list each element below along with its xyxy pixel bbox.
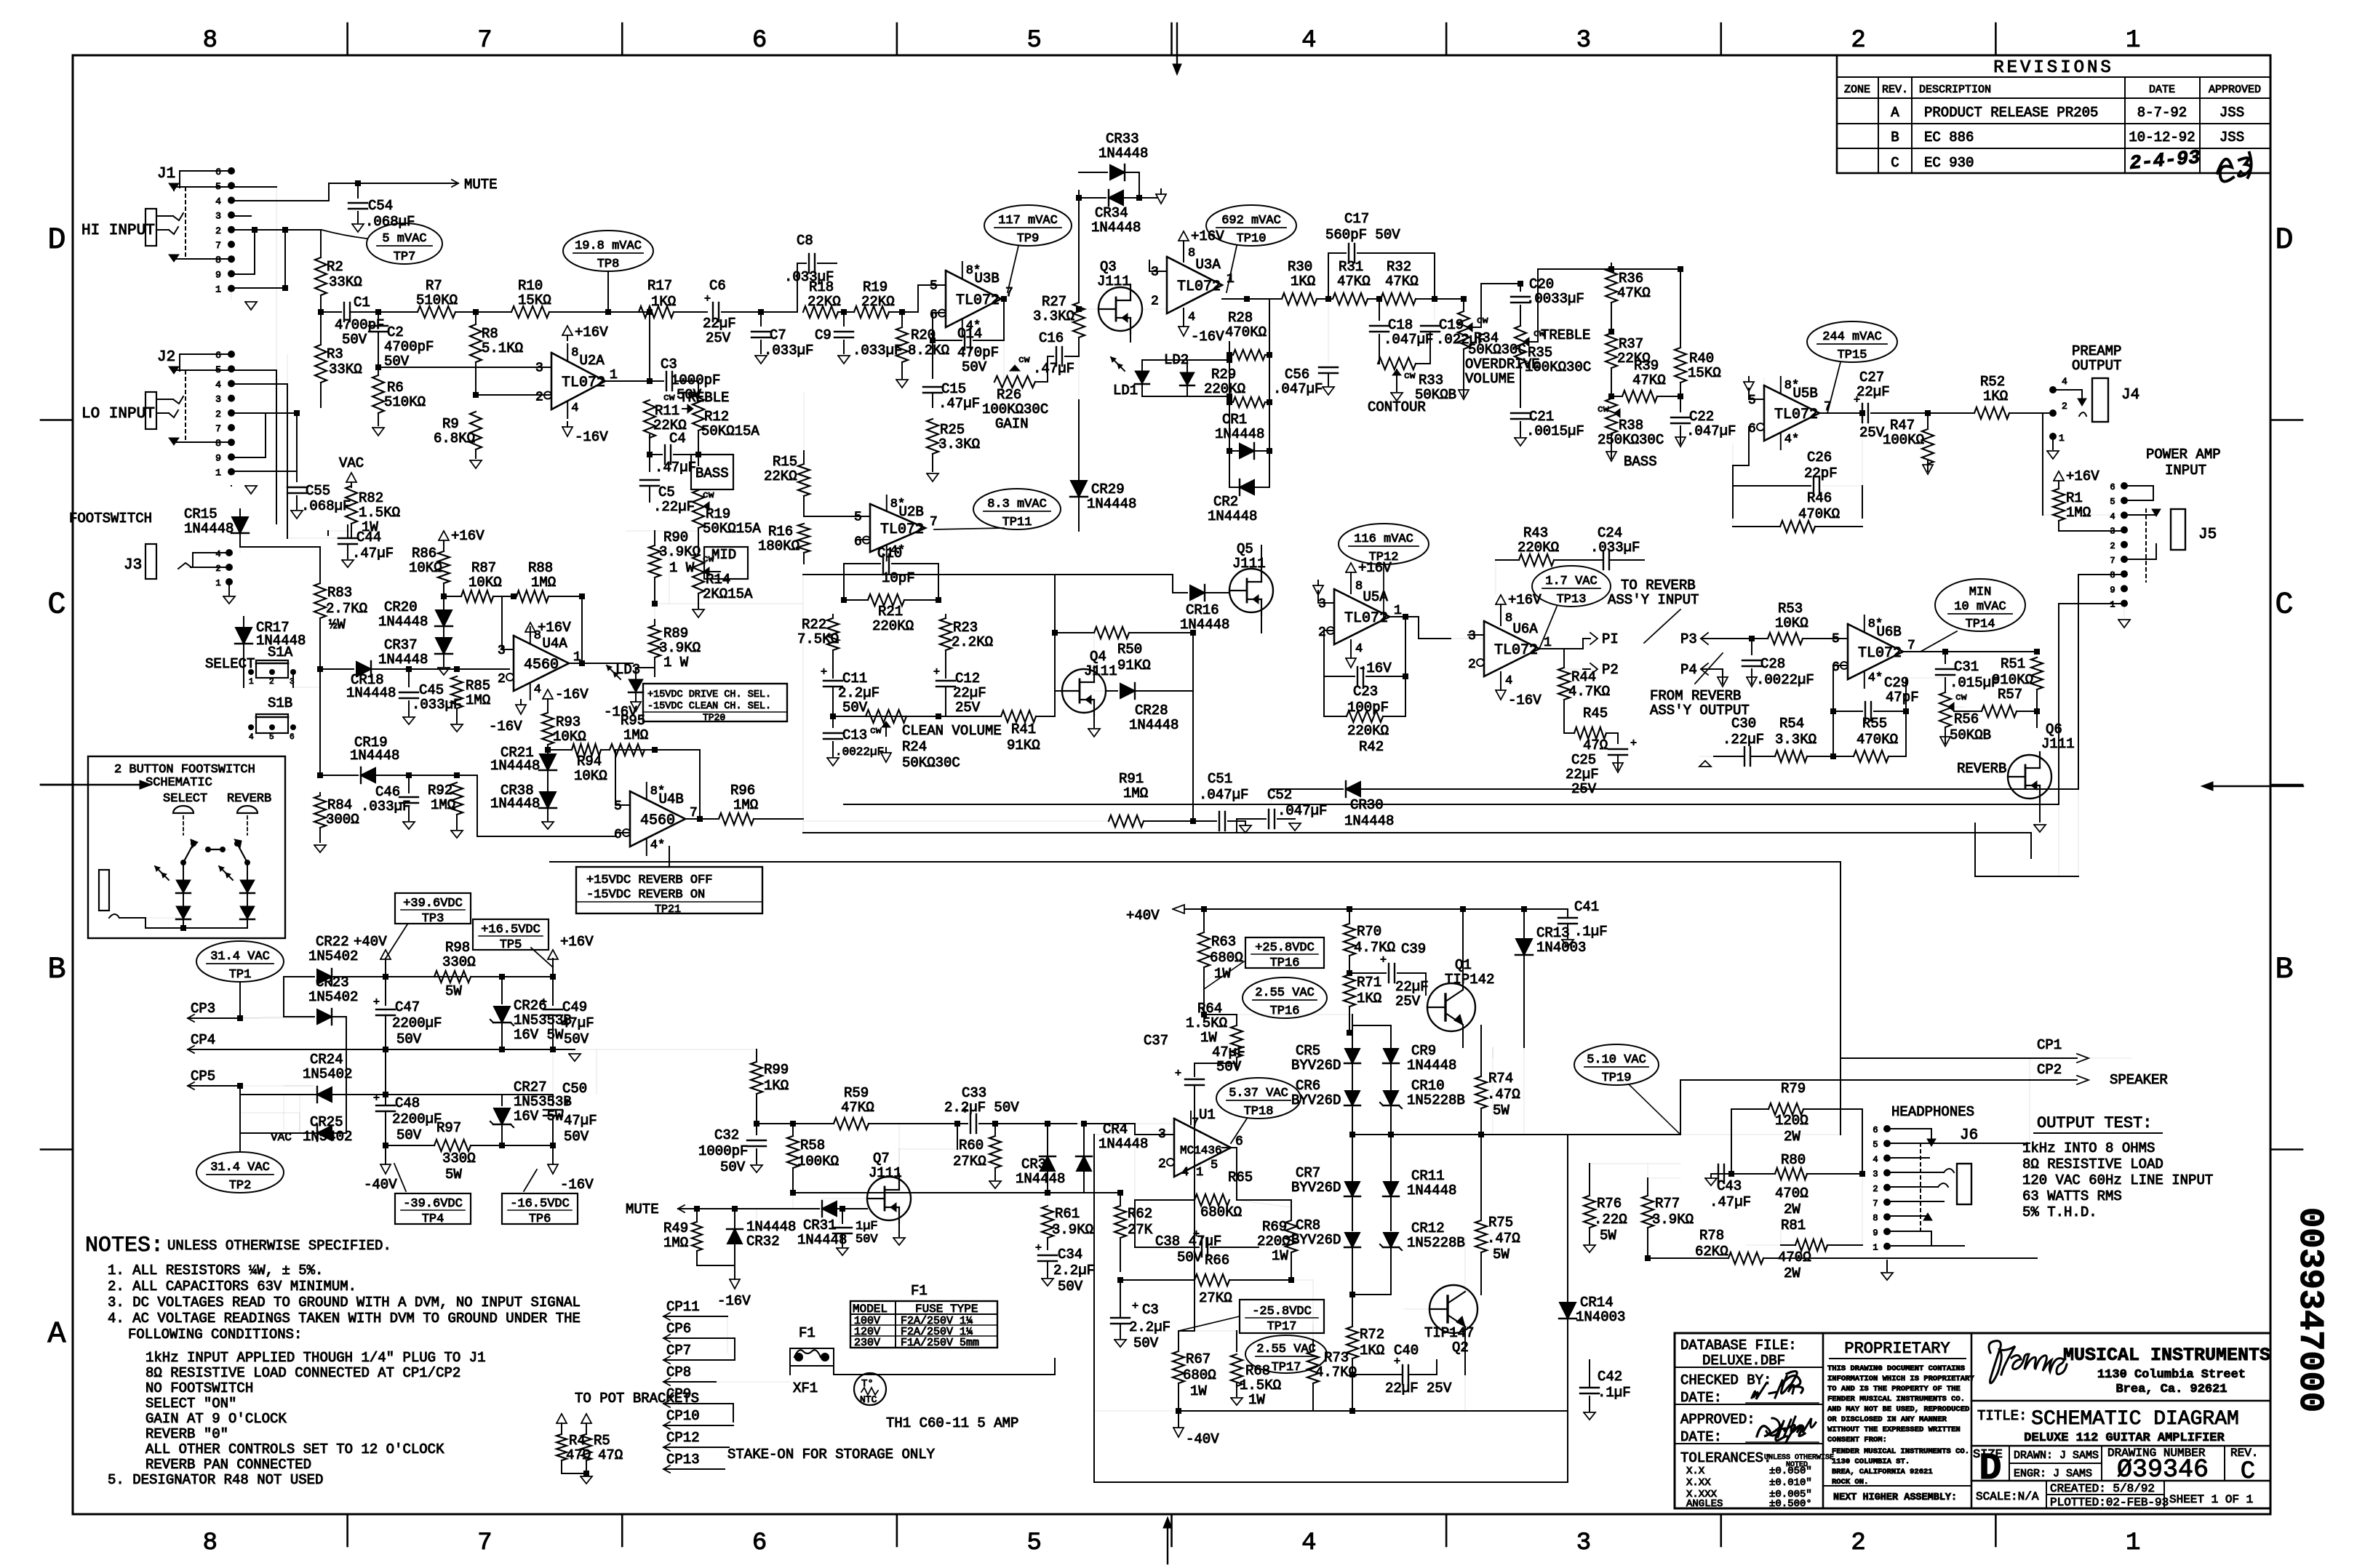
svg-text:R75: R75 <box>1488 1215 1513 1231</box>
svg-text:5 mVAC: 5 mVAC <box>382 232 426 246</box>
svg-text:100KΩ: 100KΩ <box>797 1153 839 1169</box>
svg-text:DATE:: DATE: <box>1680 1390 1722 1406</box>
svg-text:8*: 8* <box>1784 379 1799 393</box>
svg-text:50V: 50V <box>1133 1335 1159 1351</box>
resistor R89 <box>632 663 634 664</box>
handwritten checked signature <box>1781 1371 1803 1393</box>
svg-text:1kHz INPUT APPLIED THOUGH 1/4": 1kHz INPUT APPLIED THOUGH 1/4" PLUG TO J… <box>145 1350 485 1366</box>
svg-text:.0033µF: .0033µF <box>1526 291 1584 307</box>
box MID label <box>704 547 748 579</box>
svg-text:300Ω: 300Ω <box>326 812 359 828</box>
svg-text:CP7: CP7 <box>666 1343 691 1359</box>
connector CP11 <box>663 1313 670 1320</box>
testpoint TP15 <box>1807 321 1897 362</box>
svg-text:62KΩ: 62KΩ <box>1695 1244 1728 1260</box>
svg-text:+16V: +16V <box>575 324 608 340</box>
svg-text:R17: R17 <box>647 278 672 294</box>
svg-text:TIP147: TIP147 <box>1424 1325 1474 1341</box>
ground C55 <box>291 511 303 519</box>
svg-text:+25.8VDC: +25.8VDC <box>1255 941 1315 955</box>
svg-text:C51: C51 <box>1208 771 1232 787</box>
svg-text:C9: C9 <box>815 327 831 343</box>
svg-text:-16V: -16V <box>560 1177 594 1193</box>
resistor R17 <box>608 311 637 313</box>
op-amp U5B <box>1764 385 1819 441</box>
svg-text:MID: MID <box>711 547 736 563</box>
svg-text:FUSE TYPE: FUSE TYPE <box>915 1303 978 1316</box>
svg-text:CR34: CR34 <box>1095 205 1128 221</box>
svg-text:CR15: CR15 <box>184 506 218 522</box>
svg-text:CP8: CP8 <box>666 1364 691 1380</box>
svg-text:cw: cw <box>1404 370 1416 381</box>
resistor R95 <box>610 744 645 756</box>
svg-text:TL072: TL072 <box>956 292 1000 309</box>
svg-text:C22: C22 <box>1689 409 1714 425</box>
resistor R57 <box>1954 706 1964 708</box>
svg-text:1KΩ: 1KΩ <box>1983 388 2008 404</box>
capacitor C21 <box>1511 412 1530 414</box>
svg-text:2.55 VAC: 2.55 VAC <box>1256 1343 1316 1356</box>
resistor R83 <box>319 575 321 582</box>
testpoint TP1 <box>196 941 284 982</box>
ground R6 <box>372 428 384 436</box>
svg-text:2: 2 <box>1851 1529 1865 1557</box>
svg-text:10KΩ: 10KΩ <box>409 560 442 576</box>
svg-text:2: 2 <box>215 564 220 574</box>
svg-text:REVERB PAN CONNECTED: REVERB PAN CONNECTED <box>145 1457 311 1473</box>
arrow C43 left <box>1705 1178 1717 1185</box>
title block frame <box>1675 1333 2270 1508</box>
svg-text:C8: C8 <box>797 233 813 249</box>
svg-text:1N4448: 1N4448 <box>350 748 399 764</box>
svg-text:C37: C37 <box>1144 1033 1168 1049</box>
resistor R59 <box>793 1123 832 1124</box>
rail CP4 junctions <box>383 1047 388 1052</box>
arrow P1 <box>1564 648 1583 649</box>
svg-text:Q4: Q4 <box>1090 649 1106 665</box>
svg-text:8Ω RESISTIVE LOAD: 8Ω RESISTIVE LOAD <box>2022 1156 2163 1172</box>
svg-text:8*: 8* <box>650 785 665 799</box>
svg-text:SHEET 1 OF 1: SHEET 1 OF 1 <box>2169 1493 2253 1506</box>
svg-text:1: 1 <box>2059 433 2065 444</box>
capacitor C16 <box>1047 356 1048 382</box>
svg-text:22µF: 22µF <box>703 316 736 332</box>
svg-text:1: 1 <box>249 678 254 687</box>
resistor R51 <box>1945 651 2037 652</box>
next higher assembly divider <box>1823 1485 1971 1487</box>
svg-text:LD3: LD3 <box>615 662 640 678</box>
svg-text:2.2µF: 2.2µF <box>838 685 880 701</box>
svg-text:3: 3 <box>215 211 221 222</box>
power VAC arrow <box>346 473 356 482</box>
svg-text:GAIN: GAIN <box>995 416 1029 432</box>
resistor R96 <box>719 813 754 825</box>
svg-text:TITLE:: TITLE: <box>1977 1408 2027 1424</box>
svg-text:120 VAC 60Hz LINE INPUT: 120 VAC 60Hz LINE INPUT <box>2022 1172 2213 1188</box>
svg-text:EC 886: EC 886 <box>1924 129 1974 145</box>
svg-text:1N4448: 1N4448 <box>797 1232 847 1248</box>
svg-text:cw: cw <box>1955 692 1967 703</box>
svg-text:.22µF: .22µF <box>1723 732 1764 748</box>
svg-text:5: 5 <box>1026 1529 1041 1557</box>
op-amp U4B <box>630 791 685 847</box>
potentiometer R24 clean volume <box>833 716 938 717</box>
svg-text:470KΩ: 470KΩ <box>1857 732 1898 748</box>
svg-text:+16V: +16V <box>451 528 484 544</box>
resistor R28 body <box>1233 350 1265 360</box>
svg-text:U4A: U4A <box>543 636 568 652</box>
svg-text:6: 6 <box>215 167 221 177</box>
svg-text:2: 2 <box>1318 625 1326 640</box>
svg-text:8: 8 <box>571 346 578 360</box>
transistor Q6 <box>2008 755 2051 799</box>
svg-text:CP2: CP2 <box>2037 1062 2062 1078</box>
resistor R84 <box>314 796 326 828</box>
svg-text:2: 2 <box>215 409 221 420</box>
resistor R21 <box>868 594 904 606</box>
wire Q2 collector <box>1464 1327 1466 1375</box>
power -16V LD3 <box>631 702 641 711</box>
svg-text:3: 3 <box>535 361 543 376</box>
resistor R70 <box>1349 909 1350 922</box>
resistor R67 <box>1178 1331 1179 1350</box>
svg-text:7.5KΩ: 7.5KΩ <box>797 631 839 647</box>
svg-text:R77: R77 <box>1655 1196 1680 1212</box>
svg-text:R5: R5 <box>594 1433 610 1449</box>
svg-text:10KΩ: 10KΩ <box>1775 615 1808 631</box>
resistor R49 <box>756 1209 757 1219</box>
svg-text:100KΩ30C: 100KΩ30C <box>982 401 1048 417</box>
capacitor C45 <box>408 669 410 687</box>
svg-text:330Ω: 330Ω <box>442 1151 476 1167</box>
svg-text:1N4448: 1N4448 <box>1087 496 1136 512</box>
svg-text:CR1: CR1 <box>1222 412 1247 428</box>
svg-text:7: 7 <box>477 27 492 55</box>
svg-text:FENDER MUSICAL INSTRUMENTS CO.: FENDER MUSICAL INSTRUMENTS CO. <box>1832 1447 1969 1456</box>
svg-text:WITHOUT THE EXPRESSED WRITTEN: WITHOUT THE EXPRESSED WRITTEN <box>1827 1425 1961 1434</box>
svg-text:R38: R38 <box>1619 417 1643 433</box>
svg-text:C24: C24 <box>1598 525 1622 541</box>
svg-text:6: 6 <box>1873 1125 1878 1135</box>
capacitor C23 <box>1324 630 1334 631</box>
svg-text:1KΩ: 1KΩ <box>1291 273 1315 289</box>
potentiometer R26 gain <box>994 376 1035 388</box>
svg-text:+: + <box>564 1097 570 1109</box>
wire U6B out <box>1903 651 1945 652</box>
svg-text:R50: R50 <box>1117 641 1142 657</box>
svg-text:.047µF: .047µF <box>1199 787 1248 803</box>
capacitor C18 <box>1379 299 1380 320</box>
svg-text:910KΩ: 910KΩ <box>1992 672 2033 688</box>
transistor Q5 <box>1229 569 1273 612</box>
wire to zone right <box>1537 269 1539 342</box>
box TP16 <box>1245 937 1324 968</box>
footswitch link dots <box>205 847 211 852</box>
svg-text:.22Ω: .22Ω <box>1594 1212 1627 1228</box>
size row divider <box>1971 1445 2270 1447</box>
svg-text:+40V: +40V <box>1126 908 1160 924</box>
resistor R30 <box>1222 298 1269 300</box>
svg-text:1000pF: 1000pF <box>698 1143 748 1159</box>
svg-text:C6: C6 <box>709 278 726 294</box>
svg-text:C44: C44 <box>356 529 381 545</box>
centering arrow right <box>2210 785 2303 787</box>
svg-text:C54: C54 <box>368 198 393 214</box>
svg-text:C29: C29 <box>1884 675 1909 691</box>
svg-text:1: 1 <box>2110 600 2115 610</box>
capacitor C10 <box>844 563 880 564</box>
svg-text:.033µF: .033µF <box>1590 540 1640 556</box>
svg-text:P2: P2 <box>1602 662 1619 678</box>
resistor R99 <box>756 1049 757 1059</box>
svg-text:1KΩ: 1KΩ <box>651 294 676 310</box>
svg-text:1N4448: 1N4448 <box>1344 813 1394 829</box>
svg-text:A: A <box>47 1316 66 1351</box>
wire U5A to U6A <box>1418 617 1419 639</box>
svg-text:1N4448: 1N4448 <box>1098 1136 1148 1152</box>
footswitch reverb contacts <box>234 841 240 847</box>
svg-text:CR9: CR9 <box>1411 1043 1436 1059</box>
svg-text:R97: R97 <box>436 1120 461 1136</box>
svg-text:R81: R81 <box>1781 1217 1806 1233</box>
wire footswitch bus <box>240 546 320 548</box>
wire U4A out <box>569 663 582 664</box>
svg-text:1KΩ: 1KΩ <box>764 1078 789 1094</box>
svg-text:NTC: NTC <box>860 1394 877 1405</box>
fender logo <box>1989 1341 2067 1383</box>
svg-text:+: + <box>821 666 827 679</box>
resistor R65 <box>1222 1147 1237 1148</box>
svg-text:SPEAKER: SPEAKER <box>2110 1072 2168 1088</box>
svg-text:C: C <box>2275 587 2293 622</box>
svg-text:R43: R43 <box>1523 525 1548 541</box>
power -16V U4A <box>516 705 526 714</box>
svg-text:R76: R76 <box>1597 1196 1622 1212</box>
resistor R20 <box>901 312 903 326</box>
capacitor C56 <box>1328 299 1329 364</box>
svg-text:PRODUCT RELEASE PR205: PRODUCT RELEASE PR205 <box>1924 105 2098 121</box>
svg-text:TL072: TL072 <box>562 375 605 391</box>
svg-text:1.7 VAC: 1.7 VAC <box>1545 575 1597 588</box>
svg-text:680Ω: 680Ω <box>1210 950 1243 966</box>
svg-text:D: D <box>47 223 65 257</box>
svg-text:FENDER MUSICAL INSTRUMENTS CO.: FENDER MUSICAL INSTRUMENTS CO. <box>1827 1395 1965 1404</box>
potentiometer R34 overdrive volume <box>1435 298 1464 300</box>
title row divider <box>1971 1400 2270 1402</box>
svg-text:244 mVAC: 244 mVAC <box>1822 330 1882 344</box>
svg-text:1MΩ: 1MΩ <box>531 575 556 591</box>
rail +40V <box>386 976 466 977</box>
svg-text:REVERB: REVERB <box>227 792 271 806</box>
svg-text:J111: J111 <box>1097 273 1130 289</box>
diode CR16 <box>1192 593 1194 633</box>
diode CR34 <box>1079 197 1106 199</box>
svg-text:U2A: U2A <box>579 353 605 369</box>
svg-text:cw: cw <box>870 725 882 736</box>
svg-text:22µF: 22µF <box>1857 384 1890 400</box>
svg-text:8Ω RESISTIVE LOAD CONNECTED AT: 8Ω RESISTIVE LOAD CONNECTED AT CP1/CP2 <box>145 1365 460 1381</box>
svg-text:5.37 VAC: 5.37 VAC <box>1229 1087 1288 1100</box>
resistor R63 <box>1203 909 1205 931</box>
potentiometer R19 bass <box>693 490 704 528</box>
arrow CP5 <box>188 1082 194 1089</box>
svg-text:2. ALL CAPACITORS 63V MINIMUM.: 2. ALL CAPACITORS 63V MINIMUM. <box>108 1279 356 1295</box>
svg-text:C7: C7 <box>770 327 786 343</box>
svg-text:22µF: 22µF <box>1395 979 1429 995</box>
svg-text:TREBLE: TREBLE <box>1541 327 1590 343</box>
svg-text:R15: R15 <box>773 454 797 470</box>
svg-text:CR20: CR20 <box>384 599 418 615</box>
svg-text:50V: 50V <box>342 332 367 348</box>
svg-text:R37: R37 <box>1619 336 1643 352</box>
svg-text:1kHz INTO 8 OHMS: 1kHz INTO 8 OHMS <box>2022 1140 2155 1156</box>
svg-text:1KΩ: 1KΩ <box>1357 991 1381 1007</box>
svg-text:15KΩ: 15KΩ <box>518 292 551 308</box>
svg-text:P4: P4 <box>1680 662 1697 678</box>
svg-text:½W: ½W <box>329 617 346 633</box>
resistor R73 <box>1312 1374 1314 1375</box>
svg-text:TP16: TP16 <box>1270 956 1300 970</box>
svg-text:R74: R74 <box>1488 1071 1513 1087</box>
J5 dashed link <box>2145 509 2147 582</box>
svg-text:7: 7 <box>1192 1116 1199 1130</box>
capacitor C26 <box>1763 378 1765 399</box>
resistor R62 <box>1120 1193 1121 1204</box>
svg-text:4.7KΩ: 4.7KΩ <box>1568 684 1610 700</box>
svg-text:50V: 50V <box>1216 1059 1242 1075</box>
svg-text:22µF 25V: 22µF 25V <box>1385 1380 1452 1396</box>
resistor R73 body <box>1307 1351 1319 1383</box>
svg-text:CONTOUR: CONTOUR <box>1368 399 1426 415</box>
svg-text:1MΩ: 1MΩ <box>733 797 758 813</box>
resistor R69 <box>1291 1200 1292 1212</box>
svg-text:1MΩ: 1MΩ <box>2066 505 2091 521</box>
svg-text:50V: 50V <box>1058 1279 1083 1295</box>
svg-text:MIN: MIN <box>1969 585 1992 599</box>
svg-text:R40: R40 <box>1689 351 1714 367</box>
svg-text:-39.6VDC: -39.6VDC <box>403 1197 463 1211</box>
svg-text:R29: R29 <box>1211 367 1236 383</box>
jack body J1 <box>145 209 156 246</box>
svg-text:R62: R62 <box>1128 1206 1152 1222</box>
svg-text:R19: R19 <box>863 279 888 295</box>
long bus wires reverb area <box>844 804 2059 805</box>
svg-text:-16.5VDC: -16.5VDC <box>510 1197 570 1211</box>
svg-text:5: 5 <box>1873 1140 1878 1150</box>
svg-text:50KΩ15A: 50KΩ15A <box>701 423 759 439</box>
svg-text:470Ω: 470Ω <box>1778 1249 1811 1265</box>
wire to U3B <box>902 311 918 313</box>
connector CP8 <box>663 1378 670 1385</box>
svg-text:1N4448: 1N4448 <box>1091 220 1141 236</box>
svg-text:GAIN AT 9 O'CLOCK: GAIN AT 9 O'CLOCK <box>145 1411 287 1427</box>
svg-text:4560: 4560 <box>640 812 675 829</box>
ground contour <box>1396 381 1397 391</box>
svg-text:5.1KΩ: 5.1KΩ <box>482 340 523 356</box>
svg-text:C45: C45 <box>419 682 444 698</box>
capacitor C44 <box>327 531 329 535</box>
potentiometer R35 treble2 <box>1520 320 1521 326</box>
U3A pin3 stub <box>1149 271 1167 272</box>
svg-text:+: + <box>1630 737 1637 750</box>
svg-text:.033µF: .033µF <box>853 343 902 359</box>
svg-text:2: 2 <box>1158 1157 1166 1172</box>
testpoint TP19 <box>1574 1044 1659 1085</box>
svg-text:DELUXE 112 GUITAR AMPLIFIER: DELUXE 112 GUITAR AMPLIFIER <box>2024 1431 2225 1445</box>
power +16V U2A <box>562 326 573 335</box>
connector CP10 <box>663 1422 670 1429</box>
svg-text:LD1: LD1 <box>1113 383 1138 399</box>
op-amp U1 <box>1174 1119 1231 1177</box>
svg-text:C31: C31 <box>1954 659 1979 675</box>
svg-text:R8: R8 <box>482 326 498 342</box>
capacitor C31 <box>1945 652 1946 663</box>
speaker lines CP1 CP2 <box>1492 1047 1493 1058</box>
wire preamp to poweramp <box>2042 413 2043 515</box>
wire mute <box>328 183 330 201</box>
svg-text:4: 4 <box>1301 27 1316 55</box>
svg-text:+: + <box>373 996 380 1009</box>
power rails bridge <box>346 1017 347 1133</box>
svg-text:TP2: TP2 <box>229 1179 252 1193</box>
svg-text:1N4448: 1N4448 <box>490 758 540 774</box>
capacitor C6 <box>674 311 707 313</box>
svg-text:1KΩ: 1KΩ <box>1360 1343 1384 1359</box>
svg-text:U6A: U6A <box>1513 621 1539 637</box>
wire U5A out <box>1389 616 1419 617</box>
svg-text:C21: C21 <box>1529 409 1554 425</box>
svg-text:B: B <box>1891 129 1899 145</box>
resistor R10 <box>476 311 511 313</box>
svg-text:REVISIONS: REVISIONS <box>1993 58 2114 78</box>
resistor R81 element <box>1795 1239 1827 1251</box>
handwritten approved date <box>1766 1417 1816 1437</box>
box TP20 drive-clean <box>643 684 787 721</box>
svg-text:C16: C16 <box>1039 330 1064 346</box>
svg-text:REV.: REV. <box>1882 84 1908 96</box>
svg-text:R63: R63 <box>1211 934 1236 950</box>
svg-text:50V: 50V <box>962 359 987 375</box>
box BASS <box>691 455 733 489</box>
svg-text:1N4448: 1N4448 <box>1407 1057 1456 1073</box>
svg-text:4: 4 <box>1355 642 1363 656</box>
title block database file cell <box>1675 1367 1823 1368</box>
resistor R58 <box>757 1123 793 1124</box>
svg-text:3: 3 <box>215 394 221 405</box>
svg-text:1N4448: 1N4448 <box>1215 426 1264 442</box>
diode CR13 <box>1523 909 1525 938</box>
svg-text:R25: R25 <box>940 422 965 438</box>
svg-text:4: 4 <box>1873 1154 1878 1164</box>
jack body J2 <box>145 392 156 429</box>
svg-text:5: 5 <box>269 733 274 742</box>
svg-text:R54: R54 <box>1779 716 1804 732</box>
resistor R71 <box>1344 975 1355 1007</box>
svg-text:4: 4 <box>1301 1529 1316 1557</box>
svg-text:22KΩ: 22KΩ <box>861 294 895 310</box>
svg-text:CR12: CR12 <box>1411 1220 1445 1236</box>
svg-text:FROM REVERB: FROM REVERB <box>1650 688 1741 704</box>
svg-text:4. AC VOLTAGE READINGS TAKEN W: 4. AC VOLTAGE READINGS TAKEN WITH DVM TO… <box>108 1311 581 1327</box>
connector J2 <box>228 351 235 358</box>
svg-text:6: 6 <box>290 733 295 742</box>
svg-text:R96: R96 <box>730 783 755 799</box>
svg-text:-40V: -40V <box>364 1177 397 1193</box>
svg-text:R39: R39 <box>1634 358 1659 374</box>
svg-text:1N4448: 1N4448 <box>1129 717 1178 733</box>
diode CR4 body <box>1077 1156 1091 1171</box>
svg-text:.47µF: .47µF <box>352 545 394 561</box>
